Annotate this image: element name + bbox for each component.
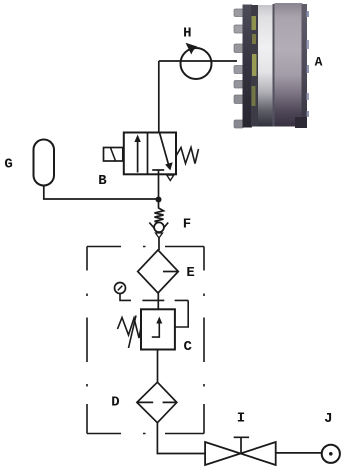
directional valve B body	[124, 133, 176, 175]
label J	[324, 411, 332, 427]
valve C internal arrow	[152, 317, 163, 338]
valve B right position diagonal path	[160, 133, 173, 171]
drain point J	[322, 445, 340, 463]
wire: accumulator G to junction	[44, 186, 159, 200]
pressure reducing valve C body	[141, 309, 175, 349]
svg-text:F: F	[183, 217, 191, 233]
dashed enclosure box	[87, 247, 204, 434]
valve B blocked port T	[152, 169, 164, 171]
svg-text:E: E	[186, 265, 194, 281]
check valve F spring	[155, 208, 164, 222]
wire: filter E to valve C	[157, 293, 159, 309]
svg-text:A: A	[315, 55, 323, 70]
label F	[183, 217, 191, 233]
wire: vertical drop from H line to valve B top port	[158, 61, 160, 133]
pilot line (dashed) to valve C	[142, 300, 188, 327]
valve B drain triangle	[167, 175, 174, 180]
accumulator G	[34, 140, 55, 186]
pressure gauge	[115, 283, 132, 301]
wire: check valve F to filter E	[158, 238, 160, 250]
junction node	[156, 197, 162, 203]
svg-text:J: J	[324, 411, 332, 427]
wire: valve B bottom port down through junction	[158, 170, 160, 209]
filter D	[137, 382, 177, 423]
wire: valve C to filter D	[157, 350, 159, 383]
valve C adjustable spring	[118, 316, 142, 349]
label E	[186, 265, 194, 281]
shutoff valve I	[205, 437, 276, 465]
label C	[183, 339, 192, 355]
svg-text:H: H	[183, 26, 191, 42]
filter E	[138, 250, 179, 293]
label G	[4, 156, 12, 172]
svg-text:B: B	[98, 173, 107, 189]
label A	[315, 55, 323, 70]
rotary cylinder photo A	[234, 3, 309, 128]
label B	[98, 173, 107, 189]
wire: filter D to shutoff valve I	[157, 423, 205, 454]
label D	[111, 395, 119, 411]
svg-text:C: C	[183, 339, 192, 355]
label I	[237, 410, 245, 426]
pump H (circle with rotation arrow)	[181, 43, 212, 79]
spring of valve B	[176, 148, 199, 164]
label H	[183, 26, 191, 42]
check valve F outlet triangle	[156, 233, 163, 238]
solenoid actuator of valve B	[104, 148, 123, 162]
wire: pump H outlet to cylinder	[159, 60, 237, 62]
svg-text:I: I	[237, 410, 245, 426]
check valve F seat and ball	[149, 222, 168, 233]
svg-text:G: G	[4, 156, 12, 172]
wire: valve I to drain J	[276, 452, 322, 454]
svg-text:D: D	[111, 395, 119, 411]
valve B left position flow arrow	[134, 135, 140, 173]
